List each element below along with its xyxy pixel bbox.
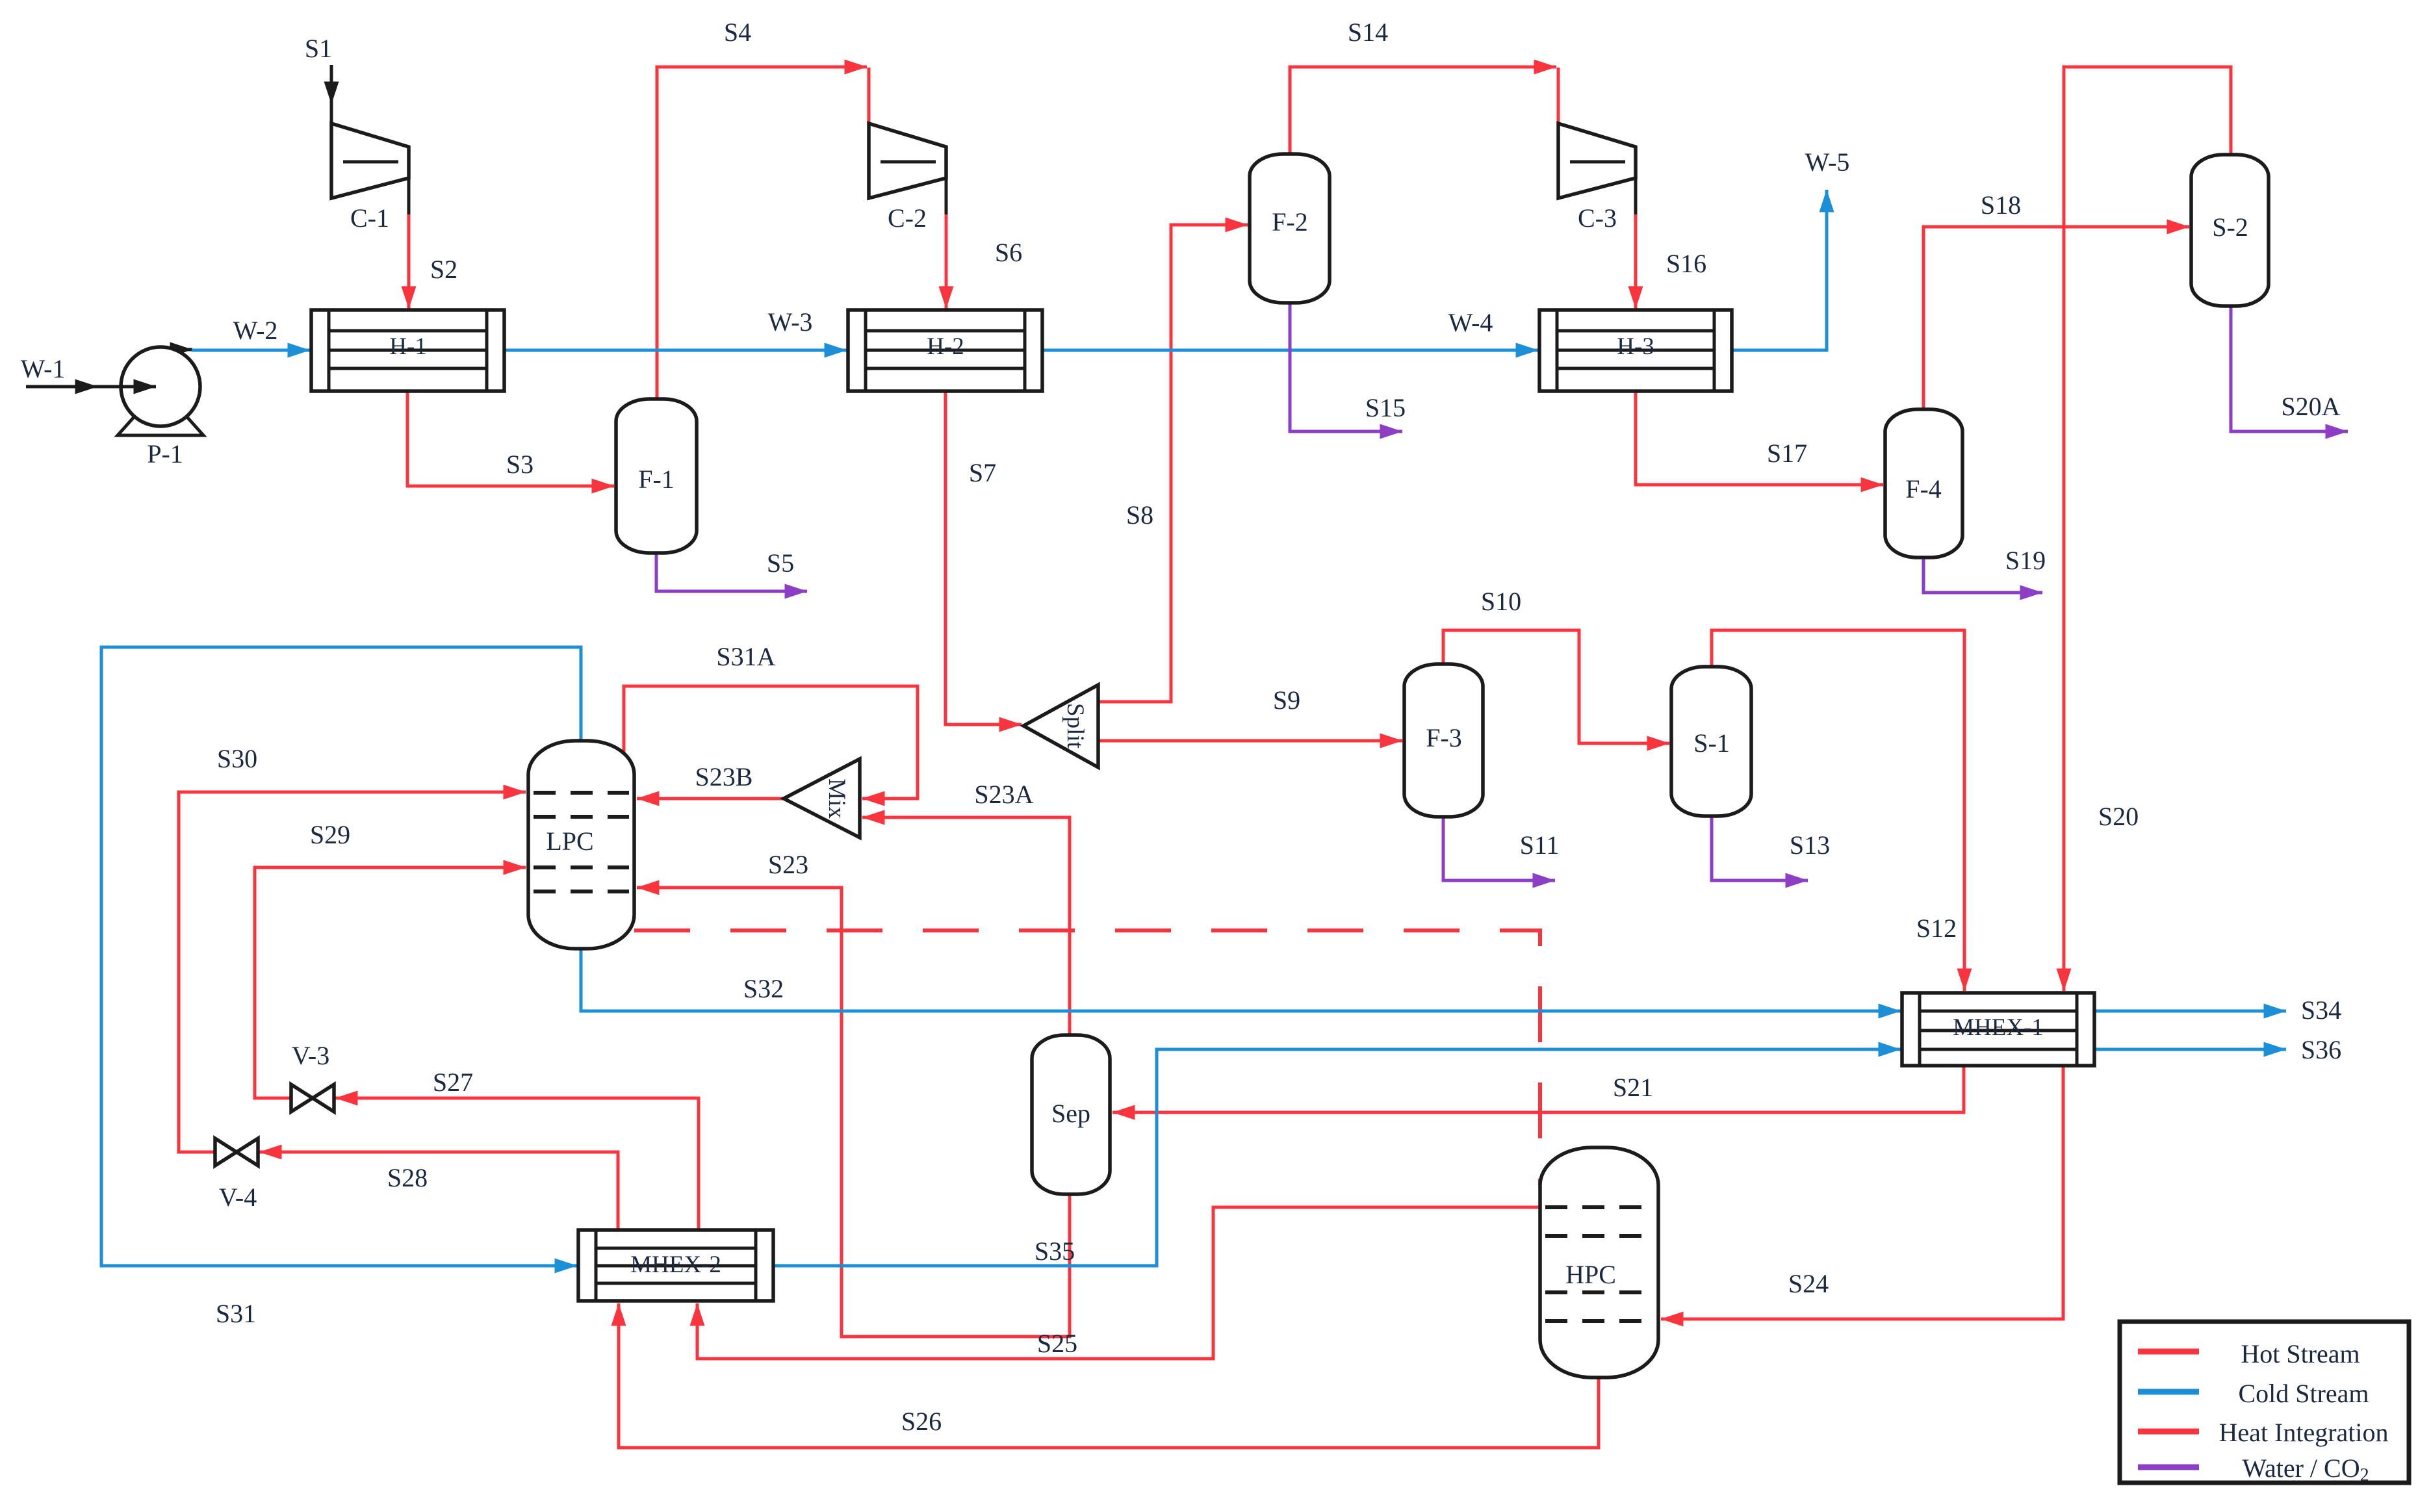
svg-text:S23B: S23B (695, 762, 753, 791)
svg-text:F-3: F-3 (1426, 723, 1462, 752)
wire S3 (407, 391, 614, 486)
svg-text:C-3: C-3 (1578, 203, 1617, 233)
wire S10 (1443, 630, 1669, 743)
wire S8 (1098, 225, 1248, 702)
svg-text:S27: S27 (433, 1068, 473, 1097)
wire S20 (2064, 67, 2231, 991)
legend water / co2 (2138, 1465, 2199, 1470)
wire S21 (1113, 1066, 1964, 1112)
wire S24 (1661, 1066, 2063, 1319)
wire W-2 (192, 349, 310, 352)
wire S31A (624, 686, 918, 799)
svg-text:S24: S24 (1788, 1269, 1829, 1298)
svg-text:S23A: S23A (974, 780, 1033, 809)
flash drum F-4 (1885, 409, 1962, 557)
svg-text:Water / CO2: Water / CO2 (2242, 1454, 2369, 1485)
svg-text:F-2: F-2 (1272, 207, 1308, 237)
wire S20A (2231, 306, 2348, 431)
wire S17 (1636, 391, 1883, 485)
heat exchanger H-2 (848, 310, 1042, 391)
heat exchanger MHEX-2 (578, 1230, 773, 1301)
svg-text:S16: S16 (1666, 249, 1706, 278)
svg-text:C-2: C-2 (888, 203, 927, 233)
svg-text:S11: S11 (1520, 830, 1560, 860)
wire S11 (1443, 817, 1555, 880)
wire W-3 (504, 349, 847, 352)
svg-text:S13: S13 (1790, 830, 1830, 860)
legend cold stream (2138, 1389, 2199, 1395)
svg-text:W-5: W-5 (1805, 147, 1850, 177)
svg-text:Sep: Sep (1051, 1099, 1090, 1128)
flash drum F-3 (1404, 664, 1483, 817)
separator S-2 (2191, 155, 2269, 306)
wire S1 inlet (330, 65, 333, 104)
wire S16 (1634, 214, 1638, 309)
column HPC (1540, 1147, 1658, 1377)
svg-text:S5: S5 (767, 548, 794, 578)
svg-text:S8: S8 (1126, 500, 1153, 530)
wire S18 (1923, 227, 2189, 409)
wire S28 (259, 1152, 618, 1230)
compressor C-2 (869, 123, 946, 198)
legend hot stream (2138, 1349, 2199, 1355)
svg-text:S12: S12 (1916, 914, 1957, 943)
wire C-1 outlet (black) (407, 147, 411, 214)
wire S19 (1923, 557, 2042, 593)
svg-text:S26: S26 (901, 1407, 942, 1436)
wire S2 (407, 214, 411, 309)
svg-text:P-1: P-1 (147, 439, 183, 468)
svg-text:S36: S36 (2301, 1035, 2341, 1064)
separator S-1 (1671, 667, 1751, 816)
valve V-4 (215, 1138, 258, 1166)
svg-text:S28: S28 (387, 1163, 428, 1192)
svg-text:S25: S25 (1037, 1329, 1077, 1358)
svg-text:S19: S19 (2005, 546, 2046, 575)
wire W-5 (1732, 190, 1827, 350)
svg-text:S31: S31 (216, 1299, 256, 1328)
svg-text:Split: Split (1062, 703, 1088, 749)
svg-text:S3: S3 (506, 450, 534, 479)
wire W-4 (1042, 349, 1538, 352)
wire pump discharge (164, 348, 192, 352)
wire S23 (637, 888, 1070, 1337)
wire S30 (179, 792, 526, 1152)
svg-text:S-1: S-1 (1693, 728, 1730, 758)
wire S14 (1290, 67, 1556, 154)
svg-text:S17: S17 (1767, 439, 1807, 468)
wire S23A (862, 817, 1070, 1035)
wire S15 (1290, 303, 1402, 431)
valve V-3 (291, 1084, 334, 1112)
wire W-1 (26, 385, 97, 389)
svg-text:MHEX-1: MHEX-1 (1953, 1014, 2044, 1041)
svg-text:H-2: H-2 (927, 333, 964, 360)
svg-text:F-1: F-1 (638, 465, 675, 494)
svg-text:S23: S23 (768, 850, 808, 879)
splitter Split (1023, 685, 1098, 767)
wire S4 (657, 67, 867, 399)
svg-text:Cold Stream: Cold Stream (2238, 1379, 2369, 1408)
svg-text:H-3: H-3 (1617, 333, 1654, 360)
wire S34 (2094, 1010, 2286, 1013)
heat exchanger H-1 (311, 310, 504, 391)
mixer Mix (784, 759, 860, 838)
pump P-1 (118, 347, 203, 435)
svg-text:Hot Stream: Hot Stream (2241, 1339, 2360, 1368)
wire S13 (1712, 816, 1808, 880)
wire S27 (335, 1098, 699, 1230)
legend heat integration (2138, 1429, 2199, 1435)
svg-text:S2: S2 (430, 255, 457, 284)
wire S25 (697, 1207, 1540, 1359)
wire W-1 into pump (97, 385, 156, 389)
column LPC (528, 741, 634, 949)
svg-text:Mix: Mix (823, 778, 850, 819)
wire S35 (773, 1049, 1901, 1266)
wire C-2 outlet (black) (945, 147, 948, 214)
svg-text:Heat Integration: Heat Integration (2219, 1418, 2389, 1447)
wire S36 (2094, 1048, 2286, 1051)
svg-text:HPC: HPC (1565, 1260, 1616, 1289)
wire S23B (637, 797, 784, 801)
wire S32 (581, 945, 1901, 1011)
svg-text:S18: S18 (1981, 190, 2021, 220)
svg-text:V-4: V-4 (219, 1183, 257, 1212)
svg-text:F-4: F-4 (1905, 474, 1942, 504)
wire S7 (945, 391, 1022, 724)
wire C-3 outlet (black) (1634, 147, 1638, 214)
svg-text:S7: S7 (969, 458, 996, 487)
svg-text:W-2: W-2 (233, 316, 278, 345)
svg-text:W-3: W-3 (768, 307, 813, 337)
svg-text:S35: S35 (1035, 1237, 1075, 1266)
svg-text:S-2: S-2 (2212, 212, 2248, 242)
svg-text:S32: S32 (743, 974, 784, 1003)
svg-text:H-1: H-1 (389, 333, 427, 360)
svg-text:W-4: W-4 (1448, 308, 1493, 337)
heat exchanger H-3 (1539, 310, 1732, 391)
wire S9 (1098, 739, 1402, 743)
wire S26 (619, 1303, 1599, 1448)
svg-text:S9: S9 (1273, 686, 1300, 715)
wire S29 (255, 867, 526, 1098)
flash drum F-2 (1250, 154, 1330, 303)
svg-text:LPC: LPC (546, 826, 593, 856)
compressor C-1 (331, 123, 409, 198)
svg-text:S4: S4 (724, 18, 751, 47)
wire S5 (656, 553, 807, 591)
svg-text:V-3: V-3 (292, 1041, 330, 1070)
svg-text:S1: S1 (305, 34, 332, 63)
heat exchanger MHEX-1 (1902, 993, 2094, 1066)
svg-text:S14: S14 (1348, 18, 1388, 47)
flash drum F-1 (616, 399, 697, 553)
wire S12 (1712, 630, 1964, 991)
svg-text:S10: S10 (1481, 587, 1521, 616)
svg-text:S34: S34 (2301, 995, 2341, 1025)
svg-text:MHEX-2: MHEX-2 (630, 1251, 721, 1278)
compressor C-3 (1558, 123, 1636, 198)
svg-text:S31A: S31A (716, 642, 775, 671)
svg-text:S21: S21 (1613, 1073, 1653, 1102)
wire S31 (LPC overhead to MHEX-2) (101, 647, 581, 1266)
svg-text:S20: S20 (2098, 802, 2139, 831)
svg-text:W-1: W-1 (21, 354, 66, 383)
legend box (2120, 1322, 2409, 1483)
wire S6 (945, 214, 948, 309)
wire heat integration (dashed) (634, 930, 1540, 1185)
svg-text:S6: S6 (995, 238, 1022, 267)
svg-text:S20A: S20A (2281, 392, 2340, 421)
svg-text:C-1: C-1 (350, 203, 389, 233)
svg-text:S30: S30 (217, 744, 257, 773)
svg-text:S29: S29 (310, 820, 350, 849)
svg-text:S15: S15 (1365, 393, 1406, 422)
separator Sep (1032, 1035, 1110, 1194)
